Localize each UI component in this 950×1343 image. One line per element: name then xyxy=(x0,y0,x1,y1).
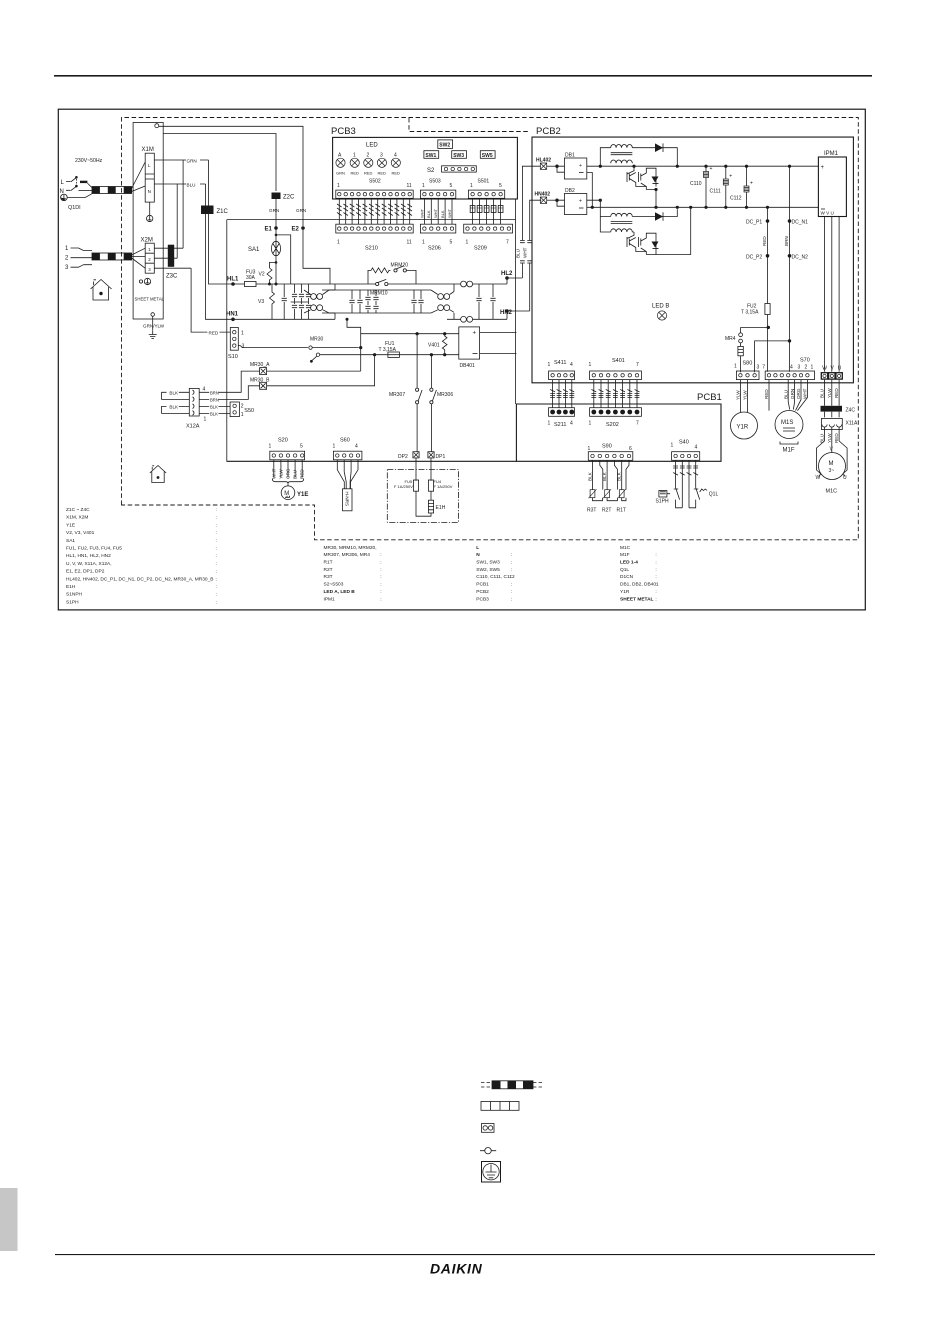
svg-text:SW2: SW2 xyxy=(439,143,450,149)
S40 wires with breaks xyxy=(673,460,698,487)
svg-text:X1M: X1M xyxy=(142,147,154,153)
svg-text:7: 7 xyxy=(506,240,509,246)
svg-text:U: U xyxy=(838,366,842,372)
svg-text:BLU: BLU xyxy=(820,389,825,398)
svg-text:1: 1 xyxy=(422,240,425,246)
PCB2 board outline xyxy=(532,137,853,383)
svg-text:YLW: YLW xyxy=(743,390,748,400)
svg-text:BLK: BLK xyxy=(440,210,445,218)
earth bus wire xyxy=(227,199,516,404)
svg-text:C110, C111, C112: C110, C111, C112 xyxy=(476,574,515,580)
svg-text:BLK: BLK xyxy=(169,405,179,410)
svg-text:11: 11 xyxy=(407,240,412,246)
swing motor M1S xyxy=(775,411,803,439)
svg-text:ORG: ORG xyxy=(796,388,801,399)
svg-text:SW1, SW3: SW1, SW3 xyxy=(476,560,500,566)
svg-text:GRN: GRN xyxy=(269,208,279,213)
filter caps set 2 xyxy=(322,290,395,313)
S502-S210 wire break marks xyxy=(337,204,412,216)
svg-text::: : xyxy=(380,575,381,580)
SA1 to V2 link xyxy=(275,261,278,264)
filter caps set 4 xyxy=(476,284,481,319)
svg-text:PCB1: PCB1 xyxy=(697,392,722,403)
svg-text:WHT: WHT xyxy=(803,388,808,399)
svg-text:BLK: BLK xyxy=(426,210,431,218)
DB401 output wires xyxy=(480,333,517,354)
svg-text:S90: S90 xyxy=(602,444,612,450)
svg-text:R2T: R2T xyxy=(602,508,611,514)
svg-text:S211: S211 xyxy=(554,422,566,428)
bottom rule xyxy=(55,1254,875,1255)
svg-text:E1H: E1H xyxy=(436,505,446,511)
svg-text:V2, V3, V401: V2, V3, V401 xyxy=(66,530,95,536)
svg-text:Y1E: Y1E xyxy=(297,492,308,498)
svg-text:1: 1 xyxy=(65,246,69,252)
switch L terminal bar xyxy=(80,181,87,183)
svg-text:RED: RED xyxy=(834,433,839,443)
svg-text:MR306: MR306 xyxy=(437,392,453,398)
svg-text::: : xyxy=(511,597,512,602)
PCB2 DC bus wires xyxy=(587,165,819,167)
svg-text:GRN: GRN xyxy=(296,208,306,213)
svg-text:S1PH: S1PH xyxy=(656,499,669,505)
svg-text:HL1, HN1, HL2, HN2: HL1, HN1, HL2, HN2 xyxy=(66,553,111,559)
legend column 4 xyxy=(620,545,659,603)
S503-S206 harness wires xyxy=(424,198,452,224)
svg-text:SA1: SA1 xyxy=(248,247,260,253)
svg-text:W: W xyxy=(816,475,821,481)
gray sidebar block xyxy=(0,1188,18,1251)
svg-text:S502: S502 xyxy=(369,179,381,185)
svg-text:Z3C: Z3C xyxy=(166,274,178,280)
ferrite Z4C xyxy=(821,406,843,412)
smoothing cap C110 xyxy=(704,165,707,168)
svg-text:LED 1-4: LED 1-4 xyxy=(620,560,638,566)
svg-text:LED A, LED B: LED A, LED B xyxy=(324,589,356,595)
svg-text:YLW: YLW xyxy=(827,433,832,443)
svg-text::: : xyxy=(511,553,512,558)
S10 feed wire (RED) xyxy=(191,268,204,332)
svg-text:RED: RED xyxy=(834,388,839,398)
svg-text:S209: S209 xyxy=(474,246,487,252)
svg-text:FU1, FU2, FU3, FU4, FU5: FU1, FU2, FU3, FU4, FU5 xyxy=(66,546,122,552)
svg-text:GRN/YLW: GRN/YLW xyxy=(143,324,165,329)
svg-text:F 1A/250V: F 1A/250V xyxy=(394,484,413,489)
legend column 3 xyxy=(476,545,515,603)
X2M wires through Z3C xyxy=(154,248,191,268)
svg-text:DC_N1: DC_N1 xyxy=(792,220,809,226)
svg-text:S70: S70 xyxy=(800,358,810,364)
house icon (outdoor) xyxy=(91,280,112,301)
svg-text::: : xyxy=(216,570,217,575)
S90 thermistor wires xyxy=(593,460,630,489)
svg-text:PCB2: PCB2 xyxy=(536,126,561,137)
svg-text:BLK: BLK xyxy=(602,471,607,481)
svg-text:3~: 3~ xyxy=(829,468,835,474)
svg-text:1: 1 xyxy=(333,444,336,450)
svg-text:W V U: W V U xyxy=(821,211,834,216)
svg-text:M: M xyxy=(829,461,834,467)
svg-text:E1, E2, DP1, DP2: E1, E2, DP1, DP2 xyxy=(66,569,105,575)
svg-text:4: 4 xyxy=(790,365,793,371)
svg-text:+: + xyxy=(473,331,477,337)
svg-text:BLU: BLU xyxy=(515,249,520,258)
svg-text:7: 7 xyxy=(636,421,639,427)
svg-text:4: 4 xyxy=(203,387,206,393)
svg-text:M1F: M1F xyxy=(783,448,795,454)
svg-text:Z1C: Z1C xyxy=(217,209,229,215)
svg-text:7: 7 xyxy=(762,365,765,371)
svg-text:S503: S503 xyxy=(429,179,441,185)
svg-text:SHEET METAL: SHEET METAL xyxy=(620,596,654,602)
svg-text::: : xyxy=(511,583,512,588)
svg-text:E1H: E1H xyxy=(66,584,76,590)
outer schematic border xyxy=(58,109,865,610)
svg-text:5: 5 xyxy=(300,444,303,450)
sensor H-NRS xyxy=(343,489,353,511)
svg-text:2: 2 xyxy=(65,256,69,262)
MR30 feed vertical xyxy=(347,319,361,371)
svg-text:4: 4 xyxy=(394,153,397,159)
svg-text:DP2: DP2 xyxy=(398,454,408,460)
M1F bracket xyxy=(780,442,798,445)
svg-text:RED: RED xyxy=(392,171,401,176)
svg-text:D1CN: D1CN xyxy=(620,574,634,580)
connector S206 xyxy=(420,224,455,233)
earth bus drop to PCB1 rail xyxy=(226,220,228,462)
svg-text:N: N xyxy=(148,189,151,194)
svg-text:M1F: M1F xyxy=(620,552,630,558)
svg-text:SHEET METAL: SHEET METAL xyxy=(135,297,165,302)
svg-text:3: 3 xyxy=(242,344,245,350)
svg-text:5: 5 xyxy=(450,183,453,189)
svg-text:DC_P2: DC_P2 xyxy=(746,254,762,260)
svg-text:R3T: R3T xyxy=(587,508,596,514)
svg-text:BRN: BRN xyxy=(784,236,789,246)
svg-text:5: 5 xyxy=(499,183,502,189)
svg-text:DB1, DB2, DB401: DB1, DB2, DB401 xyxy=(620,582,659,588)
svg-text:V: V xyxy=(831,366,835,372)
svg-text::: : xyxy=(380,568,381,573)
X11A-M1C wires xyxy=(825,427,840,441)
svg-text::: : xyxy=(655,590,656,595)
svg-text:RED: RED xyxy=(209,330,219,335)
svg-text::: : xyxy=(216,600,217,605)
wire to DB401 upper xyxy=(361,333,459,335)
svg-text:X12A: X12A xyxy=(186,424,200,430)
svg-text:BLU: BLU xyxy=(783,390,788,399)
svg-text:+: + xyxy=(710,166,713,172)
svg-text:1: 1 xyxy=(269,444,272,450)
svg-text:PCB3: PCB3 xyxy=(331,126,356,137)
legend column 2 xyxy=(324,545,382,603)
svg-text:L: L xyxy=(476,545,479,551)
svg-text:LED B: LED B xyxy=(652,304,669,310)
DC_P2 tap xyxy=(766,254,770,258)
svg-text::: : xyxy=(216,516,217,521)
svg-text:4: 4 xyxy=(570,362,573,368)
svg-text:3: 3 xyxy=(380,153,383,159)
svg-text:Z2C: Z2C xyxy=(283,195,295,201)
svg-text:S210: S210 xyxy=(365,246,378,252)
svg-text:Z1C ~ Z4C: Z1C ~ Z4C xyxy=(66,507,90,513)
Q1DI earth circle xyxy=(61,194,68,201)
svg-text::: : xyxy=(380,561,381,566)
symbol: protective earth xyxy=(482,1162,501,1183)
svg-text:MRM10: MRM10 xyxy=(370,291,388,297)
mains cable (striped) xyxy=(92,187,132,194)
svg-text::: : xyxy=(380,597,381,602)
svg-text:MR307: MR307 xyxy=(389,392,405,398)
PFC boost inductor lower xyxy=(600,200,610,232)
svg-text:BLK: BLK xyxy=(210,404,218,409)
svg-text:DC_P1: DC_P1 xyxy=(746,220,762,226)
X1M earth pin xyxy=(149,202,151,215)
svg-text::: : xyxy=(380,590,381,595)
svg-text:7: 7 xyxy=(636,362,639,368)
svg-text:W: W xyxy=(822,366,827,372)
S60 wires to H-NRS xyxy=(337,460,358,489)
S502-S210 harness wires xyxy=(339,198,409,224)
S80-Y1R wires xyxy=(740,380,747,413)
svg-text:RED: RED xyxy=(378,171,387,176)
symbol: terminal strip xyxy=(481,1102,519,1111)
svg-text:MR30_A: MR30_A xyxy=(250,362,270,368)
svg-text:IPM1: IPM1 xyxy=(324,596,336,602)
svg-text:M1C: M1C xyxy=(826,489,838,495)
svg-text:X11A: X11A xyxy=(846,421,859,427)
svg-text:M1S: M1S xyxy=(781,420,793,426)
svg-text::: : xyxy=(216,562,217,567)
svg-text:2: 2 xyxy=(367,153,370,159)
svg-text:3: 3 xyxy=(757,365,760,371)
thermistor R3T xyxy=(589,489,597,498)
HL2 feed to PCB2 xyxy=(507,166,541,278)
svg-text:R1T: R1T xyxy=(617,508,626,514)
svg-text:M1C: M1C xyxy=(620,545,631,551)
svg-text:F 1A/250V: F 1A/250V xyxy=(434,484,453,489)
svg-text:S60: S60 xyxy=(340,438,350,444)
svg-text:1: 1 xyxy=(422,183,425,189)
svg-text:LED: LED xyxy=(366,143,378,149)
svg-text:Z4C: Z4C xyxy=(846,408,856,414)
svg-text::: : xyxy=(655,575,656,580)
svg-text:1: 1 xyxy=(811,365,814,371)
svg-text:4: 4 xyxy=(570,421,573,427)
dashed divider between PCB3 and PCB2 xyxy=(409,118,530,132)
symbol: field wiring shielded cable xyxy=(481,1081,544,1089)
svg-text:U, V, W, X11A, X12A,: U, V, W, X11A, X12A, xyxy=(66,561,112,567)
svg-text:PCB1: PCB1 xyxy=(476,582,489,588)
sheet metal box xyxy=(133,123,163,320)
overload protector Q1L xyxy=(689,460,700,508)
svg-text:PCB3: PCB3 xyxy=(476,596,489,602)
svg-text:30A: 30A xyxy=(246,275,256,281)
S501-S209 pin housings xyxy=(470,198,503,224)
PCB3 board outline xyxy=(333,137,518,199)
svg-text::: : xyxy=(511,561,512,566)
svg-text:Y1E: Y1E xyxy=(66,522,75,528)
symbol: field terminal xyxy=(480,1148,496,1154)
svg-text::: : xyxy=(655,561,656,566)
svg-text:X1M, X2M: X1M, X2M xyxy=(66,515,88,521)
svg-text:S2: S2 xyxy=(427,168,435,174)
connector S202 xyxy=(590,408,642,417)
svg-text:PCB2: PCB2 xyxy=(476,589,489,595)
svg-text:1: 1 xyxy=(671,443,674,449)
connector X12A xyxy=(189,388,199,416)
svg-text:S501: S501 xyxy=(478,179,490,185)
svg-text::: : xyxy=(216,554,217,559)
house icon 2 xyxy=(150,466,166,483)
connector S50 xyxy=(230,402,239,417)
terminal DP1 xyxy=(428,452,434,458)
switch tie dashes xyxy=(75,179,77,185)
svg-text:WHT: WHT xyxy=(447,208,452,218)
svg-text:BLK: BLK xyxy=(588,471,593,481)
svg-text:RED: RED xyxy=(762,236,767,246)
svg-text:S80: S80 xyxy=(743,361,753,367)
DIP switch SW5 xyxy=(480,151,495,159)
interconnect cable (striped) xyxy=(92,253,132,260)
relay coil MR4 body xyxy=(738,346,743,355)
svg-text:S50: S50 xyxy=(244,408,254,414)
svg-text::: : xyxy=(216,523,217,528)
svg-text::: : xyxy=(511,575,512,580)
svg-text:RED: RED xyxy=(364,171,373,176)
svg-text:L: L xyxy=(148,163,151,168)
svg-text:BLK: BLK xyxy=(169,391,179,396)
svg-text:2: 2 xyxy=(805,365,808,371)
W V U wires xyxy=(825,380,840,406)
pressure switch S1PH xyxy=(659,491,667,498)
svg-text:S1NPH: S1NPH xyxy=(66,592,83,598)
svg-text:1: 1 xyxy=(148,247,151,252)
svg-text:S10: S10 xyxy=(228,354,238,360)
S401-S202 wires xyxy=(594,380,637,408)
connector X11A xyxy=(821,419,842,430)
svg-text::: : xyxy=(216,577,217,582)
svg-text:H-NRS: H-NRS xyxy=(345,492,350,507)
svg-text:1: 1 xyxy=(353,153,356,159)
svg-text:4: 4 xyxy=(355,444,358,450)
svg-text:SW2, SW5: SW2, SW5 xyxy=(476,567,500,573)
svg-text::: : xyxy=(216,531,217,536)
svg-text:IPM1: IPM1 xyxy=(824,151,839,157)
svg-text:HN402: HN402 xyxy=(535,192,551,198)
legend column 1 xyxy=(66,507,217,605)
svg-text:Y1R: Y1R xyxy=(620,589,630,595)
svg-text:11: 11 xyxy=(407,183,412,189)
thermistor R2T xyxy=(603,489,611,498)
MR30 coil wires xyxy=(267,356,375,386)
svg-text:V3: V3 xyxy=(258,299,264,305)
DC_P1 tap xyxy=(767,207,769,371)
heater E1H xyxy=(428,500,433,513)
E1 cap-bank earth drop xyxy=(275,234,278,237)
heater circuit wires xyxy=(416,458,431,516)
svg-text:S40: S40 xyxy=(679,440,689,446)
svg-text:GRN: GRN xyxy=(336,171,345,176)
svg-text:YLW: YLW xyxy=(827,388,832,398)
svg-text:RED: RED xyxy=(764,389,769,399)
Z3C ferrite xyxy=(168,245,174,267)
svg-text:SW3: SW3 xyxy=(453,153,464,159)
svg-text:C112: C112 xyxy=(730,196,742,202)
DC_N2 to S80 pin3 branch xyxy=(788,339,791,342)
choke coil 2 xyxy=(431,290,454,313)
svg-text:E1: E1 xyxy=(265,227,273,233)
svg-text:3: 3 xyxy=(148,267,151,272)
svg-text:1: 1 xyxy=(588,446,591,452)
svg-text:R3T: R3T xyxy=(324,574,333,580)
filter caps set 3 xyxy=(411,290,416,313)
svg-text::: : xyxy=(655,597,656,602)
svg-text:3: 3 xyxy=(798,365,801,371)
X2M earth pin xyxy=(139,280,142,283)
choke coil 1 xyxy=(304,290,329,313)
svg-text:V401: V401 xyxy=(428,343,440,349)
svg-text:WHT: WHT xyxy=(522,247,527,258)
svg-text:1: 1 xyxy=(204,417,207,423)
svg-text:DB401: DB401 xyxy=(460,363,476,369)
svg-text:HL402: HL402 xyxy=(536,158,551,164)
svg-text:1: 1 xyxy=(337,183,340,189)
svg-text:S202: S202 xyxy=(606,422,619,428)
smoothing cap C111 xyxy=(724,165,727,168)
svg-text:MR307, MR306, MR4: MR307, MR306, MR4 xyxy=(324,552,371,558)
svg-text:4: 4 xyxy=(695,445,698,451)
svg-text:1: 1 xyxy=(548,421,551,427)
HN2 feed to PCB2 xyxy=(507,200,541,311)
svg-text:C110: C110 xyxy=(690,181,702,187)
svg-text:1: 1 xyxy=(470,183,473,189)
PFC switch upper (IGBT pair) xyxy=(632,165,635,168)
IPM1 W V U output wires xyxy=(825,217,840,372)
svg-text:1: 1 xyxy=(241,331,244,337)
svg-text:S20: S20 xyxy=(278,438,288,444)
DIP switch SW2 xyxy=(438,140,453,149)
svg-text:S401: S401 xyxy=(612,358,625,364)
svg-text:BLU: BLU xyxy=(187,183,196,188)
DIP switch SW3 xyxy=(452,151,467,159)
svg-text:MR30: MR30 xyxy=(310,337,324,343)
svg-text:U: U xyxy=(843,475,847,481)
svg-text:+: + xyxy=(750,181,753,187)
S70-M1S wires xyxy=(769,380,807,411)
svg-text::: : xyxy=(216,547,217,552)
fan motor Y1E xyxy=(281,486,295,500)
svg-text:Q1DI: Q1DI xyxy=(68,205,81,211)
svg-text:+: + xyxy=(579,163,582,169)
svg-text:230V~50Hz: 230V~50Hz xyxy=(75,158,103,164)
svg-text:+: + xyxy=(579,199,582,205)
svg-text:C111: C111 xyxy=(710,189,721,195)
svg-text:BRN: BRN xyxy=(210,390,219,395)
svg-text:S206: S206 xyxy=(428,246,441,252)
svg-text:5: 5 xyxy=(450,240,453,246)
solenoid Y1R xyxy=(731,412,758,439)
svg-text::: : xyxy=(511,568,512,573)
E1 node xyxy=(275,199,277,228)
svg-text:6: 6 xyxy=(629,446,632,452)
svg-text::: : xyxy=(380,553,381,558)
DC_N1 tap xyxy=(789,166,791,221)
svg-text:1: 1 xyxy=(589,362,592,368)
svg-text:A: A xyxy=(338,153,342,159)
svg-text:DAIKIN: DAIKIN xyxy=(430,1261,483,1277)
svg-text:X2M: X2M xyxy=(141,238,153,244)
